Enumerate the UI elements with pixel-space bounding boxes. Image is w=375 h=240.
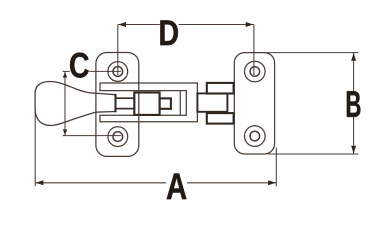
dimension D left arrowhead <box>118 22 126 27</box>
dimension A label <box>166 174 187 200</box>
dimension D left extension line <box>117 25 119 76</box>
dimension C top extension line <box>63 70 122 72</box>
dimension B top extension line <box>263 52 359 54</box>
housing inner divider <box>179 91 181 116</box>
dimension C bottom extension line <box>63 135 122 137</box>
dimension B bottom extension line <box>268 153 359 155</box>
dimension B top arrowhead <box>351 53 356 61</box>
right plate bottom hole <box>245 126 266 147</box>
dimension D right extension line <box>253 25 255 76</box>
left plate bottom hole <box>108 127 128 147</box>
latch bolt head <box>134 93 159 115</box>
keeper top tab <box>207 83 234 94</box>
dimension A left arrowhead <box>36 180 44 185</box>
dimension A right extension line <box>275 148 277 187</box>
dimension C bottom arrowhead <box>63 129 67 135</box>
dimension C label <box>70 53 89 78</box>
link bar <box>116 98 135 108</box>
left plate top hole <box>108 62 128 82</box>
dimension D right arrowhead <box>246 22 254 27</box>
right mounting plate <box>234 53 274 154</box>
bolt nose block <box>160 98 171 108</box>
dimension D label <box>160 20 179 45</box>
latch housing bracket <box>100 83 197 122</box>
right plate top hole <box>245 61 266 82</box>
keeper bottom tab <box>207 113 234 124</box>
lever clevis end edge <box>114 94 116 112</box>
left mounting plate <box>96 53 139 157</box>
dimension A line <box>35 182 276 184</box>
dimension B line <box>353 53 355 154</box>
lever handle knob <box>35 82 115 126</box>
dimension D line <box>118 24 254 26</box>
keeper middle block <box>197 93 227 111</box>
dimension C top arrowhead <box>63 72 67 78</box>
dimension C line <box>64 71 66 135</box>
dimension A right arrowhead <box>268 180 276 185</box>
dimension A left extension line <box>34 109 36 187</box>
dimension B label <box>346 91 362 117</box>
dimension B bottom arrowhead <box>351 146 356 154</box>
